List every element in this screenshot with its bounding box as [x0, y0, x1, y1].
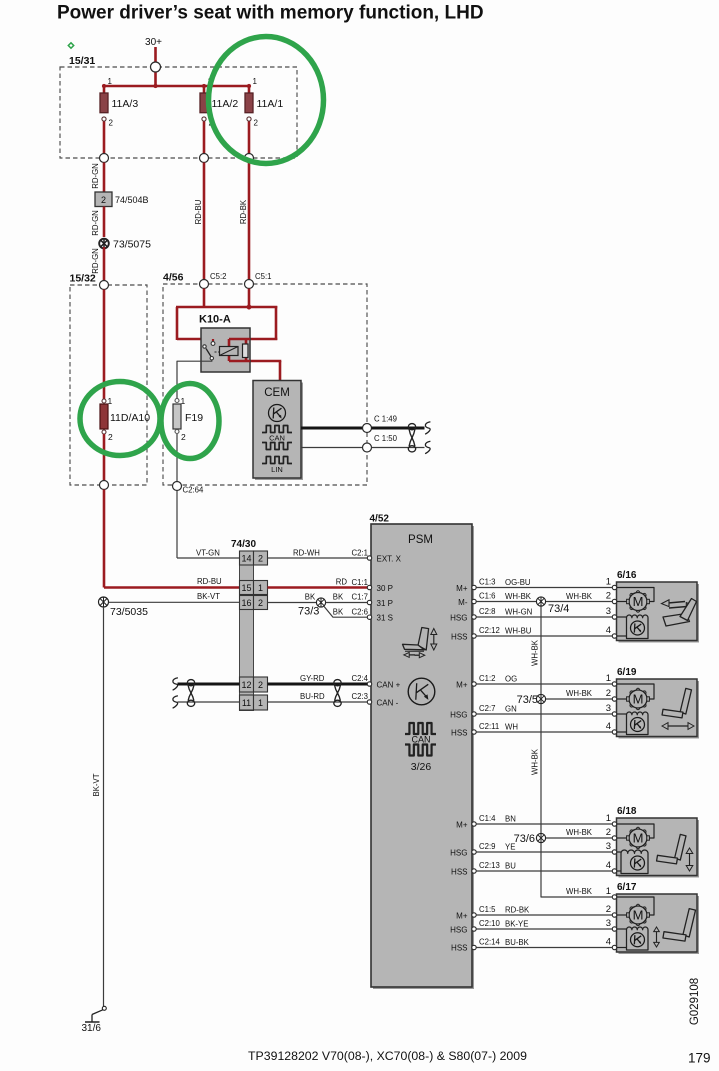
svg-text:M+: M+ — [456, 820, 468, 829]
svg-text:WH-BK: WH-BK — [566, 887, 593, 896]
svg-text:RD-WH: RD-WH — [293, 548, 320, 557]
svg-text:BK: BK — [333, 593, 344, 602]
svg-text:2: 2 — [606, 827, 611, 838]
svg-text:1: 1 — [108, 77, 113, 86]
svg-text:31 S: 31 S — [377, 614, 393, 623]
svg-text:VT-GN: VT-GN — [196, 548, 220, 557]
svg-text:BU-RD: BU-RD — [300, 692, 325, 701]
svg-text:6/19: 6/19 — [617, 667, 637, 678]
svg-text:HSS: HSS — [451, 728, 467, 737]
svg-text:GY-RD: GY-RD — [300, 674, 325, 683]
svg-text:1: 1 — [181, 396, 186, 406]
svg-text:11A/2: 11A/2 — [212, 98, 239, 110]
svg-text:BN: BN — [505, 815, 516, 824]
svg-text:11: 11 — [242, 698, 251, 708]
svg-text:C2:9: C2:9 — [479, 842, 495, 851]
svg-text:14: 14 — [241, 553, 251, 563]
svg-text:HSS: HSS — [451, 632, 467, 641]
svg-text:RD-BK: RD-BK — [505, 906, 530, 915]
svg-text:73/4: 73/4 — [548, 603, 569, 615]
svg-text:1: 1 — [606, 813, 611, 824]
svg-text:M: M — [633, 831, 644, 846]
svg-text:73/5035: 73/5035 — [110, 606, 148, 618]
svg-text:CAN -: CAN - — [377, 698, 399, 707]
svg-text:RD-BK: RD-BK — [239, 199, 248, 224]
svg-text:179: 179 — [688, 1051, 711, 1066]
svg-text:C1:3: C1:3 — [479, 577, 495, 586]
svg-text:1: 1 — [258, 698, 263, 708]
svg-text:2: 2 — [108, 432, 113, 442]
svg-text:PSM: PSM — [408, 534, 433, 546]
svg-text:BK-VT: BK-VT — [197, 592, 220, 601]
svg-text:RD-GN: RD-GN — [91, 163, 100, 189]
svg-text:C2:13: C2:13 — [479, 861, 500, 870]
svg-text:4: 4 — [606, 937, 611, 948]
svg-text:C1:1: C1:1 — [352, 578, 368, 587]
svg-text:RD-BU: RD-BU — [197, 577, 222, 586]
svg-text:C2:1: C2:1 — [352, 549, 368, 558]
svg-text:M: M — [633, 692, 644, 707]
svg-text:6/18: 6/18 — [617, 806, 637, 817]
svg-text:6/17: 6/17 — [617, 882, 637, 893]
svg-text:HSS: HSS — [451, 867, 467, 876]
svg-text:WH-BU: WH-BU — [505, 627, 532, 636]
svg-text:2: 2 — [254, 119, 259, 128]
svg-text:30+: 30+ — [145, 37, 162, 48]
svg-text:30 P: 30 P — [377, 584, 393, 593]
svg-text:BK-VT: BK-VT — [92, 773, 101, 796]
svg-text:12: 12 — [241, 680, 251, 690]
svg-text:3/26: 3/26 — [411, 761, 432, 773]
svg-text:C2:10: C2:10 — [479, 919, 500, 928]
svg-text:2: 2 — [181, 432, 186, 442]
svg-text:OG-BU: OG-BU — [505, 578, 531, 587]
svg-text:11A/1: 11A/1 — [257, 98, 284, 110]
svg-text:1: 1 — [258, 583, 263, 593]
svg-text:WH-BK: WH-BK — [566, 592, 593, 601]
svg-text:C2:14: C2:14 — [479, 938, 500, 947]
svg-text:WH-BK: WH-BK — [531, 639, 540, 666]
svg-text:C5:1: C5:1 — [255, 272, 271, 281]
svg-text:2: 2 — [606, 688, 611, 699]
svg-text:1: 1 — [253, 77, 258, 86]
svg-text:2: 2 — [258, 598, 263, 608]
svg-text:G029108: G029108 — [689, 978, 701, 1025]
svg-text:C1:2: C1:2 — [479, 674, 495, 683]
svg-text:C 1:49: C 1:49 — [374, 415, 397, 424]
svg-text:HSS: HSS — [451, 943, 467, 952]
svg-text:BK-YE: BK-YE — [505, 920, 528, 929]
svg-text:1: 1 — [606, 577, 611, 588]
svg-text:C2:3: C2:3 — [352, 692, 368, 701]
svg-text:4/52: 4/52 — [370, 513, 390, 524]
svg-text:BU-BK: BU-BK — [505, 938, 530, 947]
svg-text:C5:2: C5:2 — [210, 272, 226, 281]
svg-text:3: 3 — [606, 841, 611, 852]
svg-text:RD-GN: RD-GN — [91, 210, 100, 236]
svg-text:11D/A10: 11D/A10 — [110, 412, 150, 424]
svg-text:74/504B: 74/504B — [115, 195, 149, 205]
svg-text:31/6: 31/6 — [82, 1023, 102, 1034]
svg-text:3: 3 — [606, 606, 611, 617]
svg-text:C1:6: C1:6 — [479, 591, 495, 600]
svg-text:73/5075: 73/5075 — [113, 239, 151, 251]
svg-text:C1:4: C1:4 — [479, 814, 496, 823]
svg-text:C2:4: C2:4 — [352, 674, 369, 683]
svg-text:2: 2 — [258, 553, 263, 563]
svg-text:M: M — [633, 908, 644, 923]
svg-text:C2:64: C2:64 — [183, 486, 204, 495]
svg-text:WH-BK: WH-BK — [531, 748, 540, 775]
svg-text:15/31: 15/31 — [69, 55, 95, 67]
svg-text:1: 1 — [108, 396, 113, 406]
svg-text:M-: M- — [458, 598, 468, 607]
svg-text:2: 2 — [101, 195, 106, 205]
svg-text:74/30: 74/30 — [231, 539, 256, 550]
svg-text:OG: OG — [505, 675, 517, 684]
svg-text:WH-BK: WH-BK — [505, 592, 532, 601]
svg-text:BK: BK — [305, 593, 316, 602]
svg-text:15: 15 — [241, 583, 251, 593]
svg-text:RD-BU: RD-BU — [194, 199, 203, 224]
svg-text:F19: F19 — [185, 412, 203, 424]
svg-text:M+: M+ — [456, 584, 468, 593]
svg-text:HSG: HSG — [450, 710, 467, 719]
svg-text:2: 2 — [606, 591, 611, 602]
svg-text:31 P: 31 P — [377, 599, 393, 608]
svg-text:RD-GN: RD-GN — [91, 248, 100, 274]
svg-text:4/56: 4/56 — [163, 272, 184, 284]
svg-text:GN: GN — [505, 705, 517, 714]
svg-text:M+: M+ — [456, 680, 468, 689]
svg-text:C2:11: C2:11 — [479, 722, 499, 731]
svg-text:CEM: CEM — [264, 387, 290, 399]
svg-text:6/16: 6/16 — [617, 570, 637, 581]
svg-text:C 1:50: C 1:50 — [374, 434, 398, 443]
svg-text:3: 3 — [606, 703, 611, 714]
svg-text:1: 1 — [606, 886, 611, 897]
svg-text:C2:6: C2:6 — [352, 607, 368, 616]
svg-text:WH: WH — [505, 723, 518, 732]
svg-text:HSG: HSG — [450, 613, 467, 622]
svg-text:LIN: LIN — [271, 465, 283, 474]
svg-text:C1:7: C1:7 — [352, 593, 368, 602]
svg-text:11A/3: 11A/3 — [112, 98, 139, 110]
svg-text:CAN: CAN — [269, 434, 285, 443]
svg-text:2: 2 — [606, 904, 611, 915]
svg-text:73/3: 73/3 — [298, 606, 319, 618]
svg-text:C2:12: C2:12 — [479, 626, 500, 635]
svg-text:4: 4 — [606, 721, 611, 732]
svg-text:2: 2 — [258, 680, 263, 690]
svg-text:BK: BK — [333, 608, 344, 617]
svg-text:EXT. X: EXT. X — [377, 554, 402, 563]
svg-text:C1:5: C1:5 — [479, 905, 496, 914]
svg-text:4: 4 — [606, 860, 611, 871]
svg-text:TP39128202 V70(08-), XC70(08-): TP39128202 V70(08-), XC70(08-) & S80(07-… — [248, 1049, 527, 1063]
svg-text:HSG: HSG — [450, 848, 467, 857]
svg-text:M+: M+ — [456, 911, 468, 920]
svg-text:C2:8: C2:8 — [479, 607, 495, 616]
svg-text:WH-BK: WH-BK — [566, 689, 593, 698]
svg-text:73/6: 73/6 — [514, 833, 535, 845]
svg-text:CAN +: CAN + — [377, 680, 401, 689]
svg-text:HSG: HSG — [450, 925, 467, 934]
svg-text:Power driver’s seat with memor: Power driver’s seat with memory function… — [57, 3, 484, 24]
svg-text:YE: YE — [505, 843, 515, 852]
svg-text:16: 16 — [241, 598, 251, 608]
svg-text:C2:7: C2:7 — [479, 704, 495, 713]
svg-text:M: M — [633, 594, 644, 609]
svg-text:1: 1 — [606, 673, 611, 684]
svg-text:CAN: CAN — [411, 735, 430, 745]
svg-text:73/5: 73/5 — [517, 694, 538, 706]
svg-text:WH-GN: WH-GN — [505, 608, 532, 617]
svg-text:K10-A: K10-A — [199, 314, 231, 326]
svg-text:3: 3 — [606, 918, 611, 929]
svg-text:RD: RD — [336, 577, 348, 586]
svg-text:BU: BU — [505, 862, 516, 871]
svg-text:WH-BK: WH-BK — [566, 828, 593, 837]
svg-text:2: 2 — [109, 119, 114, 128]
svg-text:4: 4 — [606, 625, 611, 636]
